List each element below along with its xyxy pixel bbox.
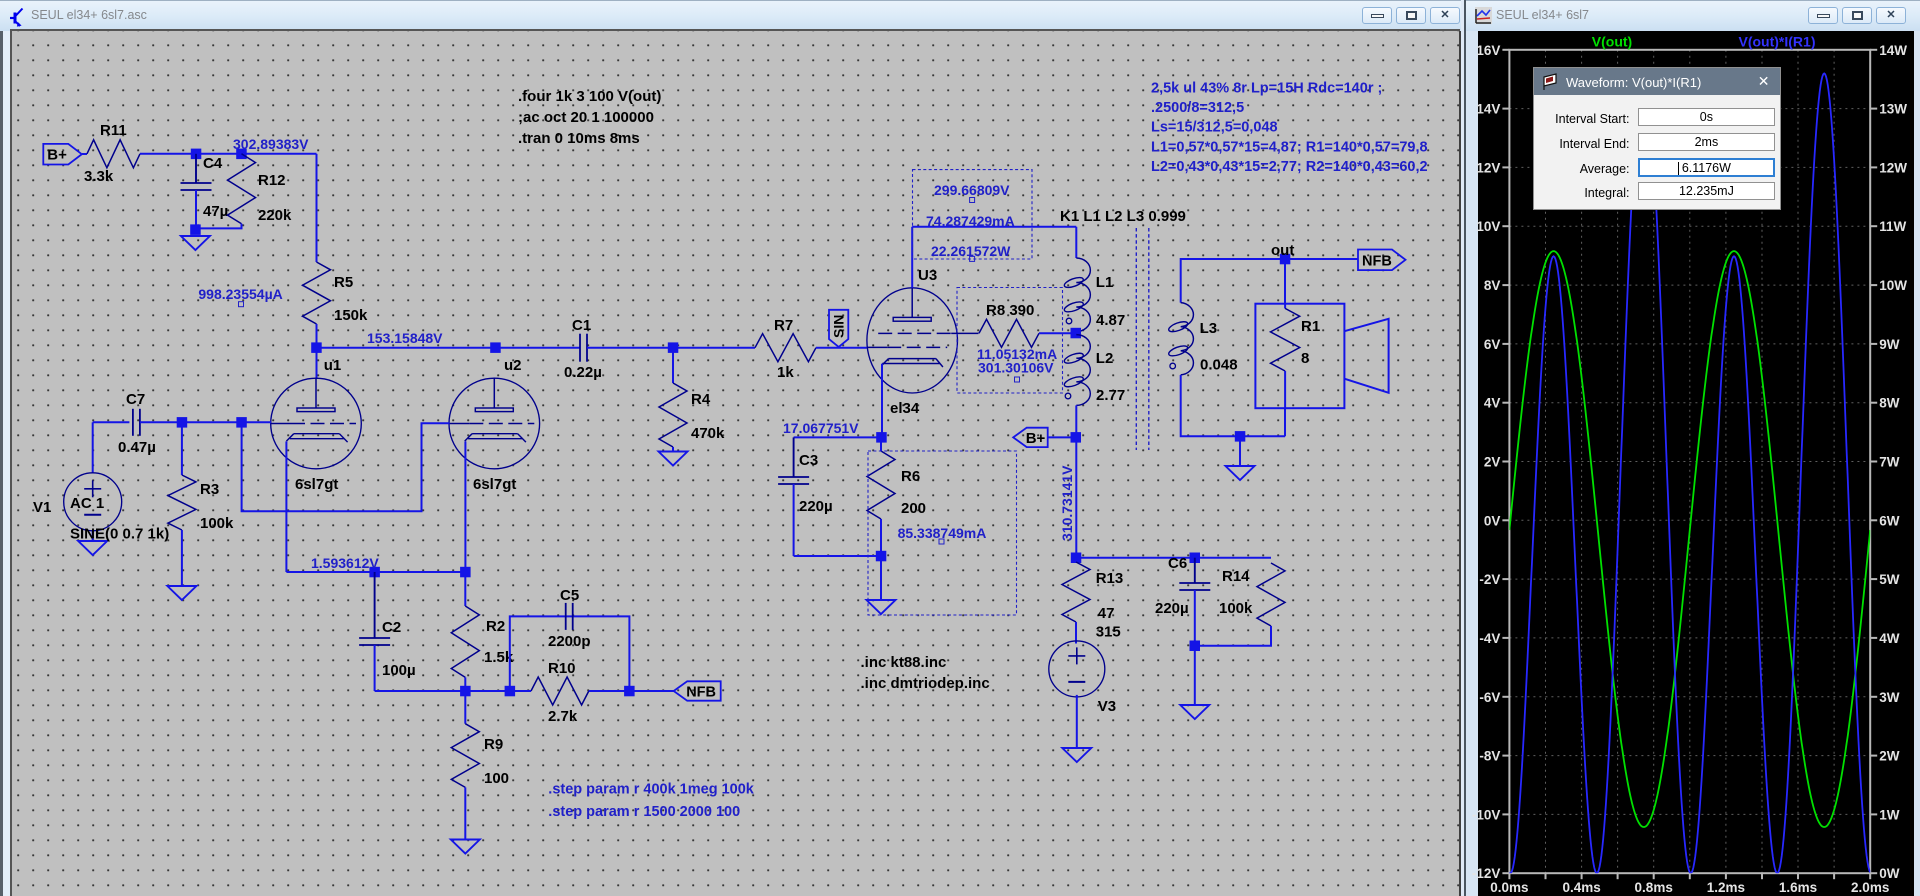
- svg-text:12V: 12V: [1476, 160, 1500, 175]
- svg-text:1W: 1W: [1879, 807, 1900, 822]
- svg-text:0V: 0V: [1484, 513, 1501, 528]
- svg-text:6W: 6W: [1879, 513, 1900, 528]
- svg-text:0W: 0W: [1879, 866, 1900, 881]
- svg-text:2.0ms: 2.0ms: [1851, 880, 1889, 895]
- svg-text:14V: 14V: [1476, 102, 1500, 117]
- svg-text:8V: 8V: [1484, 278, 1501, 293]
- svg-text:0.4ms: 0.4ms: [1562, 880, 1600, 895]
- svg-text:3W: 3W: [1879, 690, 1900, 705]
- svg-text:-4V: -4V: [1479, 631, 1500, 646]
- svg-text:9W: 9W: [1879, 337, 1900, 352]
- svg-text:4W: 4W: [1879, 631, 1900, 646]
- svg-text:-10V: -10V: [1472, 807, 1501, 822]
- svg-text:14W: 14W: [1879, 43, 1907, 58]
- svg-text:16V: 16V: [1476, 43, 1500, 58]
- svg-text:7W: 7W: [1879, 455, 1900, 470]
- svg-text:1.6ms: 1.6ms: [1779, 880, 1817, 895]
- svg-text:-6V: -6V: [1479, 690, 1500, 705]
- svg-text:0.0ms: 0.0ms: [1490, 880, 1528, 895]
- svg-text:2W: 2W: [1879, 749, 1900, 764]
- svg-text:1.2ms: 1.2ms: [1707, 880, 1745, 895]
- svg-text:-8V: -8V: [1479, 749, 1500, 764]
- svg-text:12W: 12W: [1879, 160, 1907, 175]
- svg-text:-12V: -12V: [1472, 866, 1501, 881]
- svg-text:6V: 6V: [1484, 337, 1501, 352]
- svg-text:8W: 8W: [1879, 396, 1900, 411]
- svg-text:2V: 2V: [1484, 455, 1501, 470]
- svg-text:5W: 5W: [1879, 572, 1900, 587]
- svg-text:0.8ms: 0.8ms: [1635, 880, 1673, 895]
- svg-text:-2V: -2V: [1479, 572, 1500, 587]
- svg-text:10V: 10V: [1476, 219, 1500, 234]
- svg-text:10W: 10W: [1879, 278, 1907, 293]
- svg-text:4V: 4V: [1484, 396, 1501, 411]
- svg-text:13W: 13W: [1879, 102, 1907, 117]
- svg-text:11W: 11W: [1879, 219, 1906, 234]
- svg-text:V(out): V(out): [1592, 34, 1632, 50]
- svg-text:V(out)*I(R1): V(out)*I(R1): [1739, 34, 1816, 50]
